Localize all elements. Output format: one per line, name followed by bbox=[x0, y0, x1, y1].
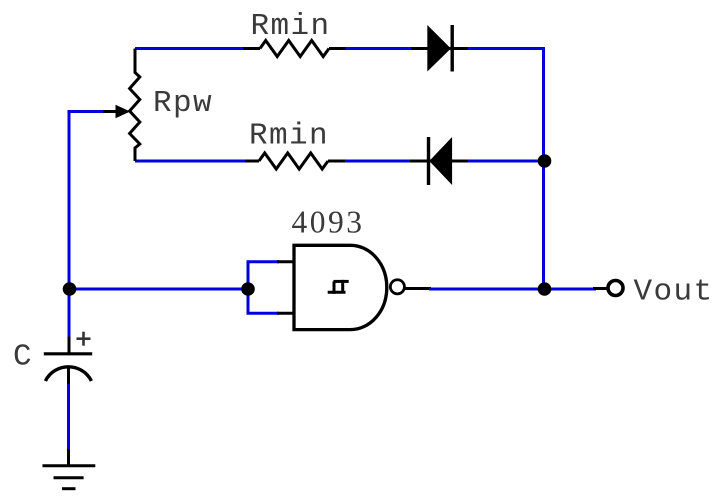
node junction dot (gate input) bbox=[241, 282, 255, 296]
gate pin stub upper (black) bbox=[277, 260, 296, 263]
capacitor C bottom lead (black) bbox=[67, 367, 70, 386]
svg-text:Rpw: Rpw bbox=[153, 86, 213, 121]
ground symbol bbox=[43, 466, 96, 489]
svg-text:4093: 4093 bbox=[292, 205, 365, 240]
wire gate input upper (blue) bbox=[247, 260, 280, 263]
node junction dot (right mid, diode join) bbox=[538, 154, 552, 168]
wire right vertical (top to mid node) bbox=[542, 47, 545, 161]
output terminal stub (black) bbox=[593, 287, 608, 290]
potentiometer Rpw (vertical zigzag) bbox=[130, 49, 140, 162]
svg-text:Rmin: Rmin bbox=[251, 9, 331, 44]
node junction dot (left, cap/gate) bbox=[63, 282, 77, 296]
wire bottom horizontal (left blue segment) bbox=[135, 160, 256, 163]
wire top horizontal (right blue segment) bbox=[466, 47, 544, 50]
resistor Rmin (top) bbox=[243, 41, 346, 57]
capacitor C top lead (black) bbox=[68, 337, 71, 354]
gate output stub (black) bbox=[404, 287, 431, 290]
wire left vertical (wiper to node) bbox=[68, 110, 71, 289]
diode D1 (top, anode left) bbox=[411, 25, 468, 72]
resistor Rmin (bottom) bbox=[245, 153, 345, 169]
wire right vertical (mid node to output node) bbox=[542, 161, 545, 289]
ground lead (black) bbox=[67, 449, 70, 466]
capacitor C top plate bbox=[44, 352, 92, 355]
svg-text:Rmin: Rmin bbox=[249, 119, 329, 154]
wire top horizontal (left blue segment) bbox=[135, 47, 245, 50]
wire bottom horizontal (right blue segment) bbox=[466, 160, 544, 163]
gate output inversion bubble bbox=[390, 280, 404, 294]
svg-text:Vout: Vout bbox=[634, 275, 714, 310]
wire main horizontal (left node to gate input node) bbox=[69, 288, 248, 291]
NAND gate U1 (4093) body bbox=[294, 245, 387, 329]
potentiometer wiper arrow bbox=[101, 105, 130, 118]
wire output node to terminal (blue) bbox=[544, 288, 596, 291]
wire wiper horizontal (blue) bbox=[69, 110, 103, 113]
gate pin stub lower (black) bbox=[277, 312, 296, 315]
diode D2 (bottom, cathode left) bbox=[410, 137, 468, 185]
svg-text:C: C bbox=[13, 340, 32, 375]
capacitor C bottom plate (curved) bbox=[45, 367, 91, 381]
wire gate input lower (blue) bbox=[247, 312, 280, 315]
Schmitt trigger hysteresis symbol bbox=[328, 280, 349, 294]
node junction dot (output) bbox=[538, 282, 552, 296]
wire node to capacitor (blue) bbox=[68, 289, 71, 338]
wire gate output to node (blue) bbox=[429, 288, 544, 291]
wire capacitor to ground (blue) bbox=[67, 384, 70, 450]
output terminal circle Vout bbox=[608, 281, 623, 296]
capacitor C plus sign bbox=[77, 332, 91, 346]
wire bottom horizontal (middle blue segment) bbox=[344, 160, 412, 163]
wire gate input vertical bar bbox=[247, 262, 250, 313]
wire top horizontal (middle blue segment) bbox=[344, 47, 413, 50]
